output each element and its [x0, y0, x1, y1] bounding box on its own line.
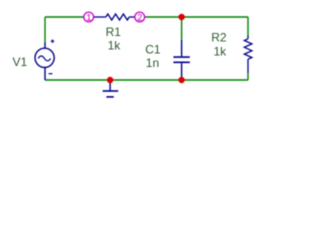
svg-text:R1: R1	[106, 25, 122, 39]
resistor R2	[244, 36, 252, 74]
wire right vertical upper	[247, 17, 249, 36]
junction dot at capacitor top	[178, 14, 184, 20]
svg-text:V1: V1	[13, 55, 28, 69]
svg-text:1n: 1n	[146, 56, 159, 70]
svg-text:1k: 1k	[108, 39, 122, 53]
svg-text:1k: 1k	[214, 45, 228, 59]
wire top-right horizontal	[145, 16, 248, 18]
junction dot at capacitor bottom	[178, 77, 184, 83]
svg-text:R2: R2	[211, 31, 227, 45]
junction dot at ground	[107, 77, 113, 83]
wire capacitor top	[181, 17, 183, 40]
voltage source V1	[35, 39, 54, 80]
node 2	[135, 12, 145, 22]
resistor R1	[94, 14, 135, 20]
ground	[103, 80, 119, 97]
capacitor C1	[173, 40, 189, 80]
wire right vertical lower	[247, 73, 249, 80]
svg-text:1: 1	[86, 12, 91, 22]
svg-text:C1: C1	[145, 42, 161, 56]
wire bottom horizontal	[45, 79, 248, 81]
wire top-left horizontal	[45, 16, 84, 18]
wire left vertical	[44, 17, 46, 43]
node 1	[84, 12, 94, 22]
svg-text:2: 2	[137, 12, 142, 22]
